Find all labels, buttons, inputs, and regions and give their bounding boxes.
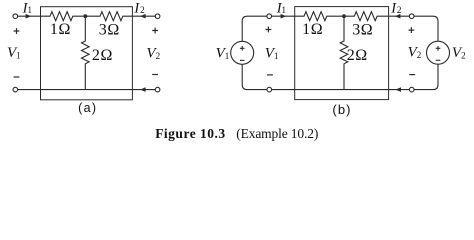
svg-text:V2: V2 (452, 45, 466, 61)
svg-text:2Ω: 2Ω (347, 47, 368, 64)
svg-text:I1: I1 (276, 0, 286, 16)
svg-text:(a): (a) (78, 101, 97, 115)
svg-text:3Ω: 3Ω (352, 21, 373, 38)
svg-text:Figure 10.3: Figure 10.3 (155, 126, 226, 141)
svg-text:3Ω: 3Ω (99, 21, 120, 38)
svg-text:1Ω: 1Ω (302, 21, 323, 38)
svg-text:I2: I2 (133, 0, 145, 16)
svg-text:1Ω: 1Ω (50, 21, 71, 38)
svg-text:V1: V1 (265, 46, 279, 62)
svg-text:V2: V2 (408, 45, 422, 61)
svg-text:I1: I1 (22, 0, 32, 16)
svg-text:I2: I2 (390, 0, 402, 16)
svg-text:(b): (b) (332, 102, 351, 117)
svg-text:V2: V2 (146, 45, 160, 61)
svg-text:(Example 10.2): (Example 10.2) (236, 126, 318, 141)
svg-text:2Ω: 2Ω (92, 47, 113, 64)
svg-text:V1: V1 (7, 45, 21, 61)
svg-text:V1: V1 (216, 46, 230, 62)
